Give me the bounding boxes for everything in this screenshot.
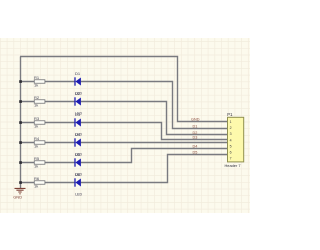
svg-text:6: 6 <box>230 150 232 154</box>
svg-text:D4: D4 <box>193 145 198 149</box>
svg-text:4: 4 <box>230 138 232 142</box>
wire GND bus vertical <box>20 57 22 189</box>
svg-text:Header 7: Header 7 <box>225 163 241 168</box>
wire branch 6 to pin 6 <box>20 155 228 183</box>
svg-text:1k: 1k <box>34 144 38 149</box>
node junction branch 2 <box>19 100 22 103</box>
svg-text:D5: D5 <box>193 151 198 155</box>
svg-text:D2: D2 <box>193 131 198 135</box>
svg-text:D1: D1 <box>75 71 81 76</box>
svg-text:1k: 1k <box>34 184 38 189</box>
diode D2 (LED) <box>75 91 82 116</box>
svg-text:D3: D3 <box>75 112 81 117</box>
resistor R2 <box>34 95 45 107</box>
svg-text:R5: R5 <box>34 156 40 161</box>
svg-text:1k: 1k <box>34 124 38 129</box>
resistor R6 <box>34 176 45 188</box>
node junction branch 6 <box>19 181 22 184</box>
svg-text:R4: R4 <box>34 136 40 141</box>
svg-text:D2: D2 <box>75 91 81 96</box>
svg-text:P1: P1 <box>227 112 233 117</box>
diode D6 (LED) <box>75 172 82 197</box>
svg-text:7: 7 <box>230 157 232 161</box>
wire branch 3 to pin 4 <box>20 123 228 140</box>
svg-text:GND: GND <box>191 118 200 122</box>
node junction branch 5 <box>19 161 22 164</box>
node junction branch 1 <box>19 80 22 83</box>
svg-text:D3: D3 <box>193 136 198 140</box>
svg-text:D4: D4 <box>75 132 81 137</box>
svg-text:1k: 1k <box>34 164 38 169</box>
wire net GND top run to pin 1 <box>20 57 228 122</box>
svg-text:GND: GND <box>13 194 22 199</box>
node junction branch 3 <box>19 121 22 124</box>
connector P1 <box>225 112 244 168</box>
svg-text:D1: D1 <box>193 125 198 129</box>
resistor R5 <box>34 156 45 168</box>
diode D5 (LED) <box>75 152 82 177</box>
svg-text:R3: R3 <box>34 116 40 121</box>
resistor R1 <box>34 75 45 87</box>
resistor R4 <box>34 136 45 148</box>
wire branch 1 to pin 2 <box>20 82 228 129</box>
wire branch 5 to pin 5 <box>20 149 228 163</box>
svg-text:D5: D5 <box>75 152 81 157</box>
svg-text:3: 3 <box>230 132 232 136</box>
svg-text:1k: 1k <box>34 103 38 108</box>
svg-text:LED: LED <box>75 193 82 197</box>
wire branch 4 straight toward pin <box>20 142 228 144</box>
svg-text:R6: R6 <box>34 176 40 181</box>
diode D3 (LED) <box>75 112 82 137</box>
ground <box>13 188 25 199</box>
svg-text:1: 1 <box>230 120 232 124</box>
svg-text:1k: 1k <box>34 83 38 88</box>
svg-text:R2: R2 <box>34 95 40 100</box>
svg-text:2: 2 <box>230 126 232 130</box>
diode D4 (LED) <box>75 132 82 157</box>
node junction branch 4 <box>19 141 22 144</box>
svg-text:D6: D6 <box>75 172 81 177</box>
wire branch 2 to pin 3 <box>20 102 228 135</box>
svg-text:5: 5 <box>230 144 232 148</box>
diode D1 (LED) <box>75 71 82 96</box>
svg-text:R1: R1 <box>34 75 40 80</box>
resistor R3 <box>34 116 45 128</box>
